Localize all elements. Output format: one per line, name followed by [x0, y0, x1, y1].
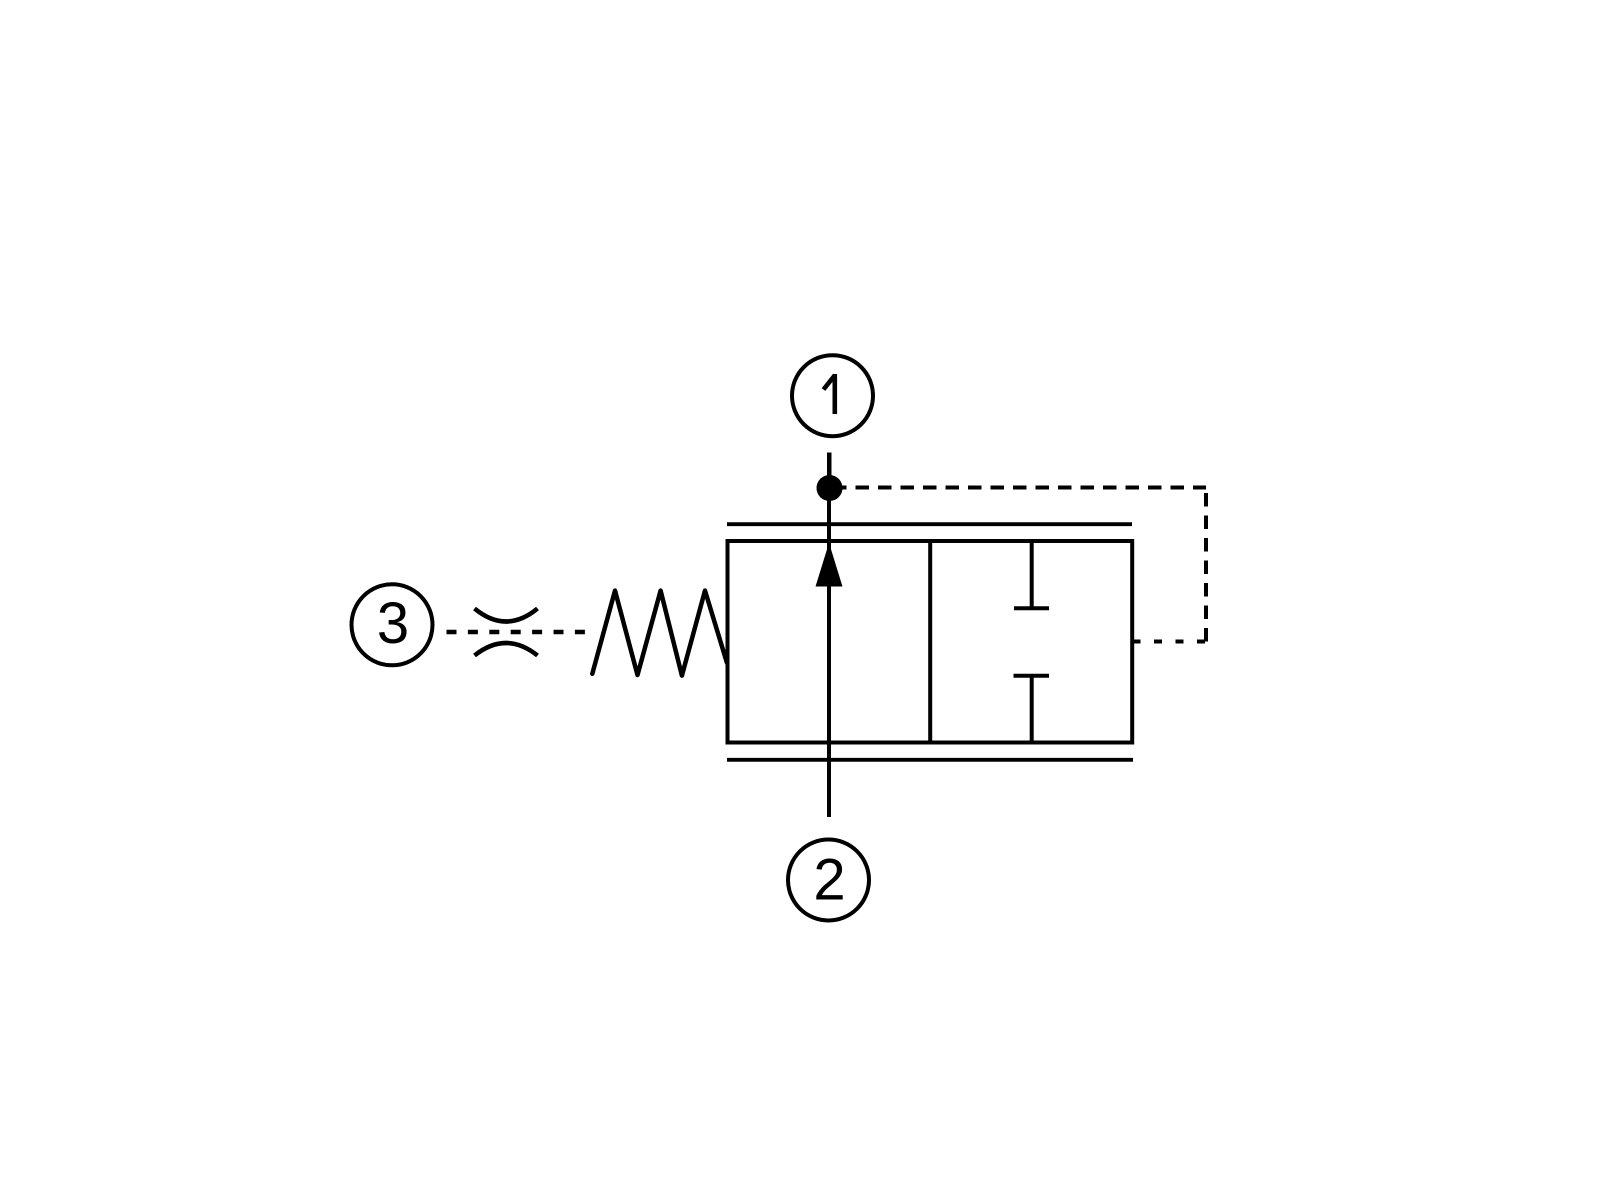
- port circle 2: [788, 840, 869, 921]
- blocked path piston symbol lower stem: [1030, 676, 1034, 743]
- pilot dashed line from port 3: [447, 630, 586, 635]
- upper rail line: [727, 522, 1132, 526]
- port circle 3: [352, 584, 433, 665]
- lower rail line: [727, 758, 1133, 762]
- port circle 1: [792, 355, 873, 436]
- spring: [592, 591, 727, 676]
- blocked path upper bar: [1014, 606, 1049, 610]
- valve body rectangle: [728, 541, 1133, 743]
- orifice upper arc: [475, 609, 538, 622]
- svg-text:2: 2: [813, 847, 845, 912]
- position divider: [928, 541, 932, 743]
- pilot line dashed from node to valve right side: [842, 486, 1206, 490]
- flow path wire (shaft through valve to port 2): [827, 453, 831, 818]
- blocked path lower bar: [1014, 674, 1050, 678]
- blocked path piston symbol upper stem: [1030, 541, 1034, 608]
- flow arrowhead: [816, 545, 842, 587]
- orifice lower arc: [475, 643, 538, 656]
- node junction dot: [817, 475, 843, 501]
- wire port1 to node: [828, 453, 832, 489]
- svg-text:3: 3: [377, 591, 409, 656]
